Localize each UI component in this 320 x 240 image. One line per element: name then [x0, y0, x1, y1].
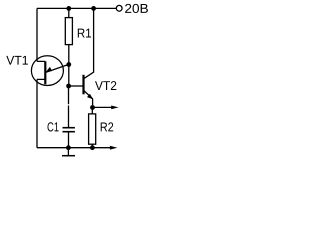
resistor R1 — [68, 8, 70, 17]
node D dot (R2 bottom) — [90, 145, 95, 150]
terminal 20V — [116, 5, 122, 11]
node dot R1 top — [66, 6, 71, 11]
wire VT2 base lead — [69, 85, 83, 87]
wire top rail (+20V) — [37, 7, 116, 9]
transistor VT2 base bar — [82, 75, 84, 95]
output arrow top — [93, 106, 113, 108]
label C1 — [48, 122, 59, 131]
transistor VT1 base bar — [44, 61, 46, 84]
VT2 collector lead and wire to top rail — [84, 8, 94, 78]
capacitor C1 — [63, 127, 75, 129]
label VT2 — [95, 81, 116, 90]
wire VT1 bottom lead to ground rail — [37, 79, 45, 147]
wire node B down to C1 (small gap) — [68, 86, 70, 127]
node A dot — [66, 62, 71, 67]
node dot ground — [66, 145, 71, 150]
node dot VT2 collector top — [91, 6, 96, 11]
label VT1 — [6, 56, 28, 65]
node B dot — [66, 84, 71, 89]
ground symbol — [67, 148, 69, 156]
wire node A to node B — [68, 65, 70, 87]
transistor VT1 body circle — [31, 56, 63, 86]
output arrow bottom — [92, 147, 111, 149]
label R1 — [78, 29, 91, 38]
VT1 emitter lead with arrow to node A — [46, 64, 69, 72]
resistor R2 — [91, 108, 93, 114]
label 20В — [125, 4, 148, 13]
node C dot — [90, 105, 95, 110]
wire VT1 collector to top rail — [37, 8, 45, 61]
VT2 emitter lead with arrow — [84, 91, 93, 108]
label R2 — [101, 122, 114, 131]
wire bottom rail — [37, 147, 92, 149]
